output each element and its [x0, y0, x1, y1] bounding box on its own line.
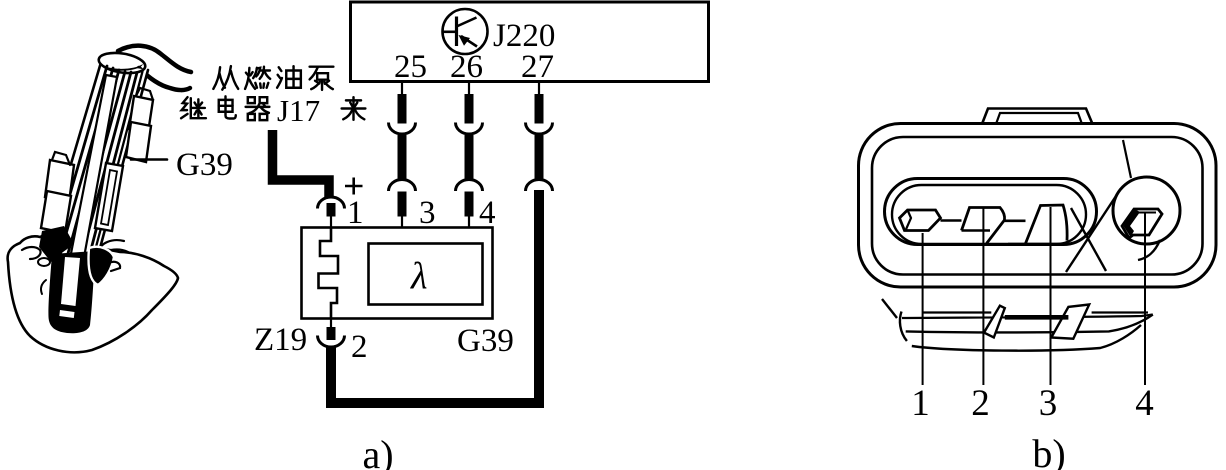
svg-text:J17: J17 — [277, 93, 320, 128]
svg-text:G39: G39 — [176, 147, 233, 183]
svg-text:b): b) — [1032, 431, 1065, 470]
svg-text:1: 1 — [911, 383, 930, 424]
svg-text:25: 25 — [394, 49, 427, 85]
svg-text:λ: λ — [410, 256, 427, 298]
svg-text:2: 2 — [351, 329, 368, 365]
svg-text:G39: G39 — [457, 323, 514, 359]
svg-text:a): a) — [362, 432, 393, 470]
svg-text:3: 3 — [1039, 383, 1058, 424]
svg-text:1: 1 — [347, 195, 364, 231]
svg-text:4: 4 — [479, 195, 496, 231]
svg-text:4: 4 — [1135, 383, 1154, 424]
svg-text:Z19: Z19 — [254, 322, 307, 358]
svg-text:2: 2 — [971, 383, 990, 424]
svg-text:26: 26 — [450, 49, 483, 85]
svg-text:3: 3 — [419, 195, 436, 231]
svg-text:27: 27 — [521, 49, 554, 85]
